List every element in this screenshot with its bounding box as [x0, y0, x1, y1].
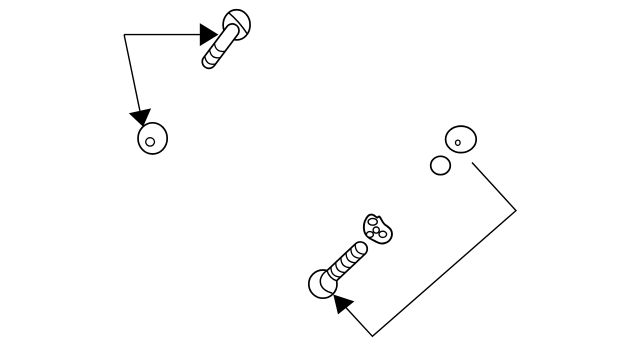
arrowhead down at washer	[129, 108, 151, 126]
screw S1 thread 6	[353, 244, 365, 257]
arrowhead right at bolt	[200, 23, 219, 46]
washer W1 hole	[146, 138, 155, 146]
screw S1 thread 1	[328, 267, 340, 280]
washer W1 outer	[138, 123, 167, 154]
bolt B1 thread 1	[212, 43, 225, 54]
leader line vertical to washer	[124, 35, 140, 111]
grommet G1 hole	[456, 140, 461, 145]
clip C1 hole bottom-right	[379, 231, 387, 237]
screw S1 thread 3	[338, 257, 350, 270]
clip C1 hole bottom-left	[366, 232, 373, 238]
leader line from grommet to screw	[346, 163, 516, 337]
grommet G1 outer	[446, 126, 477, 153]
screw S1 junction curve	[326, 271, 337, 282]
screw S1 head	[309, 270, 337, 298]
clip C1 hole top	[368, 218, 377, 225]
screw S1 head flange arc	[320, 271, 332, 294]
screw S1 shaft	[322, 239, 370, 285]
arrowhead up-left at screw	[333, 295, 354, 315]
bolt B1 thread 2	[208, 50, 221, 61]
bolt B1 thread 3	[203, 56, 216, 67]
washer W2 small circle	[431, 156, 451, 174]
leader line horizontal to bolt	[124, 34, 200, 36]
screw S1 thread 2	[333, 262, 345, 275]
clip C1 hole middle	[373, 227, 379, 233]
screw S1 thread 5	[348, 248, 360, 261]
bolt B1 head	[223, 10, 250, 40]
clip C1 body	[364, 215, 392, 244]
bolt B1 shaft	[200, 21, 242, 71]
screw S1 thread 4	[344, 253, 356, 266]
bolt B1 head dome arc	[228, 12, 247, 33]
